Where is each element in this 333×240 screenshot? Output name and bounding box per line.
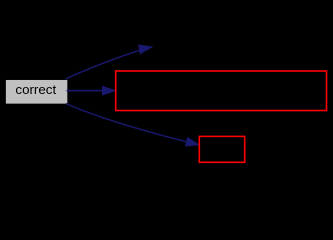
small red node (truncated callee) xyxy=(199,136,244,162)
big red node (truncated callee) xyxy=(116,71,327,111)
arrowhead of middle edge xyxy=(102,86,115,95)
arrowhead of bottom edge xyxy=(185,137,199,146)
edge to big red node xyxy=(67,90,104,92)
node correct (current node, grey) xyxy=(5,79,68,104)
arrowhead of top edge xyxy=(138,45,152,54)
edge to top node (invisible) xyxy=(66,47,153,79)
edge to small red node xyxy=(66,104,199,145)
svg-text:correct: correct xyxy=(15,82,56,97)
